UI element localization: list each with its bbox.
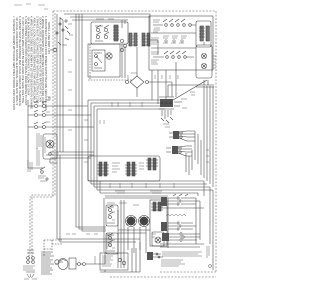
valve bars lower [152,232,164,246]
label blob L3 [151,52,159,64]
burner switch box 2 [106,233,118,254]
bottom right wires row [160,244,204,247]
wire bus left verticals [57,14,106,231]
central connector cluster [159,97,187,127]
label blob L1 [153,20,160,32]
wire J2 to control box [137,14,158,76]
wire row inside console [151,33,196,48]
labels above burner box [115,191,162,193]
burner box assembly [104,196,168,252]
burner switch box 1 [106,205,118,226]
P3 bars group 3 [146,158,158,170]
plug row PA bottom right [161,194,200,244]
lower selector box [88,44,120,77]
bottom right text row 2 [161,260,185,266]
clock text box [100,253,128,270]
dark cluster right of clock [147,252,163,260]
terminal block text [23,266,35,270]
motor box [43,134,57,159]
bottom left supply dashed [29,240,62,262]
door switch cluster [38,167,48,181]
terminal block TB marks [27,250,35,263]
burner element B2 [139,216,150,227]
wire labels scattered [46,60,209,234]
wire top bus horizontals [64,14,150,20]
plug fan cluster A right [169,131,198,164]
wire bottom joins [100,242,140,272]
diagonal wire console to bus [173,42,207,100]
notes text block (rotated 90deg) [12,16,51,111]
control console box [149,16,213,70]
connector block P3 box [88,156,160,181]
valve bars upper [151,202,163,211]
label blob L2 [151,36,187,44]
P3 bars group 2 [125,162,137,176]
bottom right text row 1 [162,252,202,256]
bottom right cluster row 1 [162,233,200,241]
switch SW2 contacts [94,53,112,68]
box line under row PA [160,207,204,209]
plug fan cluster B right [166,146,192,175]
supply prongs [24,272,37,279]
plug P9 circle [55,260,63,264]
right bus lower drops [204,181,213,270]
wire motor to bus [28,159,57,168]
plug row P1 [153,19,196,26]
wire bundle lower horizontals with corners [88,181,213,196]
P3 bars group 1 [97,162,109,176]
wires right of upper box [122,20,125,78]
sensor box right [196,45,212,78]
plug row PB bottom right [161,214,196,231]
right bus gather line [168,80,214,97]
burner element B1 [126,216,137,227]
igniter diamond [126,73,173,97]
wire console drops [152,62,176,104]
header artifacts top-left [14,4,48,9]
wires below burners [118,200,150,268]
svg-text:7. SCHEMATIC SHOWN WITH DOOR S: 7. SCHEMATIC SHOWN WITH DOOR SWITCHES IN… [12,16,16,110]
switch SW1 contacts [95,25,109,41]
right vertical bus [201,86,213,187]
oven lamp assembly [55,252,105,270]
dashed bottom line [110,272,216,277]
burner labels [107,203,139,249]
surface switch box upper [91,19,128,44]
dashed line under selector [88,44,132,80]
wire bottom horizontals left [57,239,140,242]
wire rows mid left [46,152,94,158]
motor label vertical [28,137,45,172]
relay bars in console box [196,21,211,47]
valve box right of burners [150,200,167,246]
connector bar CB1 [113,25,119,41]
dashed enclosure frame outer [30,11,216,272]
bottom right vertical label [207,246,211,267]
motor M1 [46,140,54,155]
wire corner bundle center top [88,100,165,190]
connector circles right of box [120,39,126,51]
vertical label text left [37,133,41,149]
tick marks on right bus [213,56,216,68]
connector marks on left bus [50,18,73,52]
plug P9 text [41,252,54,274]
P3 labels [112,163,144,172]
wire left drop pair [57,152,60,242]
plug row P2 [153,51,194,58]
connector stack J1 [128,33,138,46]
connector stack J2 [142,33,150,46]
left connector rows [28,100,94,168]
